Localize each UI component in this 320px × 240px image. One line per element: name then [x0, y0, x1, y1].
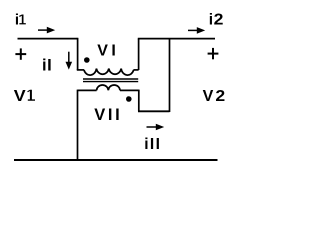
- arrow i2: [188, 27, 205, 34]
- wire bottom connector: [138, 110, 170, 112]
- svg-text:i: i: [15, 12, 19, 29]
- inductor winding I (4 arcs): [84, 69, 134, 76]
- svg-text:2: 2: [215, 88, 225, 105]
- wire right vertical rise: [138, 39, 140, 70]
- transformer core lines: [83, 78, 138, 80]
- polarity dot winding II: [126, 96, 132, 102]
- label V1: [14, 88, 35, 105]
- wire winding II right drop: [138, 90, 140, 112]
- wire jog to winding I left end: [77, 69, 84, 71]
- wire winding II right chord: [120, 89, 139, 91]
- inductor winding II (2 arcs): [97, 85, 120, 90]
- wire top-left input: [18, 38, 78, 40]
- plus sign right: [208, 48, 219, 59]
- wire winding II left drop: [77, 90, 79, 160]
- svg-text:V: V: [203, 88, 214, 105]
- svg-text:iII: iII: [144, 136, 161, 153]
- svg-text:iI: iI: [42, 57, 52, 75]
- label i1: [15, 12, 26, 29]
- wire winding II left chord: [78, 89, 97, 91]
- wire branch vertical up to output: [169, 39, 171, 112]
- wire bottom rail: [14, 159, 218, 161]
- arrow i1: [38, 27, 55, 34]
- wire left vertical drop to winding I: [77, 38, 79, 70]
- wire jog winding I right end: [133, 69, 138, 71]
- svg-text:VII: VII: [94, 106, 122, 124]
- svg-text:VI: VI: [97, 43, 119, 60]
- plus sign left: [15, 48, 26, 59]
- svg-text:i: i: [209, 12, 213, 29]
- wire top-right output: [138, 38, 215, 40]
- polarity dot winding I: [84, 57, 90, 63]
- arrow iI (down): [66, 52, 73, 70]
- svg-text:V: V: [14, 88, 26, 105]
- arrow iII: [147, 124, 165, 131]
- svg-text:2: 2: [214, 12, 224, 29]
